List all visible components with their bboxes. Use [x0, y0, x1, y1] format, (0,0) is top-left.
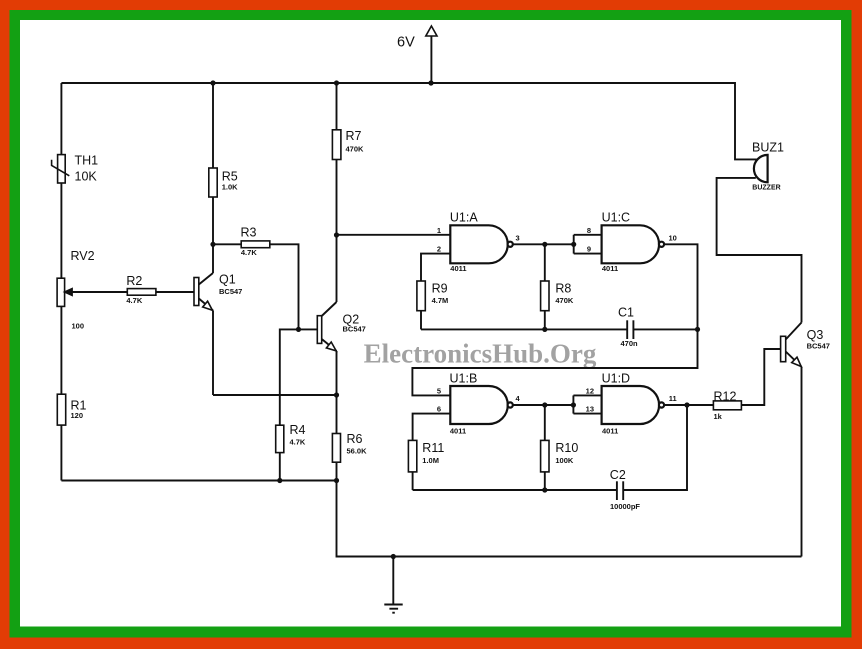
svg-text:R7: R7	[346, 129, 362, 143]
wire: U1D input split	[572, 395, 574, 413]
svg-text:R6: R6	[347, 432, 363, 446]
junction node C2 riser	[684, 402, 689, 407]
Q3 emitter arrow	[792, 357, 802, 366]
wire: U1C pin8	[574, 234, 602, 236]
wire: R2 to Q1 base	[156, 291, 194, 293]
svg-text:4.7K: 4.7K	[241, 248, 257, 257]
svg-text:4.7K: 4.7K	[290, 438, 306, 447]
wire: ground stub	[392, 557, 394, 605]
wire: R1 to bottom-left bus	[60, 425, 62, 480]
wire: Q1 collector diagonal	[199, 273, 213, 285]
wire: C1 right plate to corner	[633, 328, 697, 330]
svg-text:10000pF: 10000pF	[610, 502, 640, 511]
junction node U1B out R10	[542, 402, 547, 407]
transistor Q2	[317, 316, 321, 344]
svg-text:4011: 4011	[602, 264, 618, 273]
resistor R3	[241, 241, 270, 248]
resistor R10	[541, 440, 549, 472]
wire: RV2 wiper to R2	[65, 291, 128, 293]
svg-text:R3: R3	[241, 226, 257, 240]
svg-text:BC547: BC547	[343, 325, 366, 334]
wire: 6V stem	[430, 35, 432, 83]
svg-text:100K: 100K	[555, 456, 574, 465]
svg-text:C1: C1	[618, 306, 634, 320]
transistor Q3	[781, 336, 786, 361]
wire: RV2 to R1	[60, 306, 62, 394]
wire: node to R4 top	[280, 329, 299, 425]
svg-text:470K: 470K	[555, 296, 574, 305]
wire: TH1 to RV2	[60, 183, 62, 278]
resistor R8	[541, 281, 549, 311]
wire: U1C output to feedback	[412, 244, 697, 395]
svg-text:470n: 470n	[621, 339, 639, 348]
svg-text:470K: 470K	[346, 144, 365, 153]
thermistor TH1	[58, 155, 66, 183]
svg-text:TH1: TH1	[75, 154, 99, 168]
wire: R7 to pin1 node	[336, 160, 338, 236]
wire: R3 left lead	[213, 243, 241, 245]
wire: U1D pin12	[573, 394, 601, 396]
svg-text:4011: 4011	[602, 426, 618, 435]
svg-text:BUZZER: BUZZER	[752, 185, 780, 192]
resistor R5	[209, 168, 217, 197]
wire: R10 top lead	[544, 405, 546, 440]
wire: U1C input split	[573, 235, 575, 254]
wire: Q2 emitter diagonal	[322, 339, 337, 351]
svg-text:6V: 6V	[397, 35, 415, 51]
resistor R4	[276, 425, 284, 452]
junction node pin1	[334, 232, 339, 237]
svg-text:5: 5	[437, 386, 441, 395]
wire: U1B output	[513, 404, 574, 406]
junction node U1A out R8	[542, 242, 547, 247]
wire: R12 to Q3 base	[741, 349, 780, 405]
junction node Q1 emitter rail	[334, 392, 339, 397]
svg-text:ElectronicsHub.Org: ElectronicsHub.Org	[364, 338, 597, 368]
wire: R5 branch from top bus	[212, 83, 214, 168]
wire: U1D pin13	[573, 413, 601, 415]
wire: Q2 collector diagonal	[322, 302, 337, 316]
junction node R8 bottom	[542, 327, 547, 332]
wire: U1C pin9	[574, 253, 602, 255]
svg-text:12: 12	[586, 386, 594, 395]
wire: R8 bottom lead	[544, 311, 546, 330]
resistor R6	[332, 434, 340, 463]
resistor R11	[408, 440, 416, 472]
wire: Q3 emitter diagonal	[786, 352, 802, 367]
junction node top bus R7	[334, 80, 339, 85]
wire: Q1 emitter diagonal	[199, 299, 213, 311]
junction node R10 bottom	[542, 487, 547, 492]
svg-text:10: 10	[669, 233, 677, 242]
wire: Q1 emitter to R6 rail	[213, 394, 337, 396]
svg-text:1.0M: 1.0M	[422, 456, 439, 465]
svg-text:11: 11	[669, 394, 677, 403]
svg-text:4.7M: 4.7M	[432, 296, 449, 305]
wire: U1B pin6 to R11	[413, 414, 451, 441]
resistor R2	[127, 289, 156, 296]
svg-text:R4: R4	[290, 423, 306, 437]
svg-text:R11: R11	[422, 441, 444, 455]
resistor R12	[713, 401, 741, 410]
wire: Q3 collector diagonal	[786, 323, 802, 340]
svg-text:R2: R2	[126, 274, 142, 288]
wire: left rail top	[60, 83, 62, 155]
svg-text:1: 1	[437, 226, 441, 235]
wire: R7 branch from top bus	[336, 83, 338, 130]
wire: R6 to ground bus corner	[337, 462, 802, 556]
svg-text:10K: 10K	[75, 170, 98, 184]
junction node C1 right	[695, 327, 700, 332]
wire: R10 bottom lead	[544, 472, 546, 490]
svg-text:2: 2	[437, 245, 441, 254]
svg-text:1k: 1k	[714, 412, 723, 421]
svg-text:Q3: Q3	[807, 328, 824, 342]
wire: node R3 to Q1 collector	[212, 244, 214, 273]
capacitor C1 plates	[626, 320, 628, 339]
svg-text:120: 120	[71, 411, 84, 420]
wire: Q1 emitter down	[212, 311, 214, 396]
svg-text:56.0K: 56.0K	[347, 446, 368, 455]
wire: oscillator1 bottom rail	[421, 328, 627, 330]
wire: node to Q2 base	[299, 328, 318, 330]
wire: Q3 collector to buzzer	[717, 178, 802, 323]
junction node top bus 6V	[428, 80, 433, 85]
svg-text:100: 100	[72, 322, 85, 331]
junction node R3/R5	[210, 242, 215, 247]
svg-text:6: 6	[437, 405, 441, 414]
svg-text:4.7K: 4.7K	[126, 296, 142, 305]
junction node U1D in	[571, 402, 576, 407]
svg-text:R5: R5	[222, 170, 238, 184]
wire: C2 right plate to riser	[623, 405, 687, 490]
svg-text:C2: C2	[610, 468, 626, 482]
wire: R11 bottom lead	[412, 472, 414, 490]
ground symbol	[384, 604, 402, 606]
junction node bus end	[334, 478, 339, 483]
svg-text:1.0K: 1.0K	[222, 183, 238, 192]
junction node ground	[391, 554, 396, 559]
capacitor C2 plates	[616, 481, 618, 500]
wire: R8 top lead	[544, 244, 546, 281]
wire: top supply bus	[61, 83, 757, 159]
svg-text:R12: R12	[714, 389, 737, 403]
svg-text:RV2: RV2	[71, 249, 95, 263]
junction node Q2 base	[296, 327, 301, 332]
svg-text:U1:B: U1:B	[450, 371, 478, 385]
svg-text:4011: 4011	[450, 264, 466, 273]
wire: U1A output	[513, 243, 574, 245]
wire: oscillator2 bottom rail	[413, 489, 617, 491]
wire: R9 bottom lead	[420, 311, 422, 330]
potentiometer RV2	[57, 278, 65, 306]
transistor Q1	[194, 278, 199, 306]
svg-text:BUZ1: BUZ1	[752, 141, 784, 155]
svg-text:13: 13	[586, 405, 594, 414]
wire: pin1 node to U1A pin1	[337, 234, 451, 236]
junction node top bus R5	[210, 80, 215, 85]
Q1 emitter arrow	[203, 301, 213, 310]
svg-text:R10: R10	[555, 441, 578, 455]
svg-text:3: 3	[516, 233, 520, 242]
wire: pin1 node to Q2 collector	[336, 235, 338, 302]
junction node U1C in	[571, 242, 576, 247]
wire: R5 to node R3	[212, 197, 214, 244]
buzzer BUZ1	[754, 155, 768, 182]
resistor R9	[417, 281, 425, 311]
svg-text:U1:D: U1:D	[602, 371, 630, 385]
nand gate U1:B body	[450, 386, 508, 424]
svg-text:4011: 4011	[450, 426, 466, 435]
svg-text:Q1: Q1	[219, 273, 236, 287]
nand gate U1:C body	[602, 225, 659, 263]
svg-text:U1:A: U1:A	[450, 211, 478, 225]
resistor R7	[332, 130, 341, 160]
resistor R1	[57, 394, 65, 425]
nand gate U1:A body	[450, 225, 507, 263]
svg-text:U1:C: U1:C	[602, 211, 630, 225]
wire: Q3 emitter to ground bus	[801, 367, 803, 557]
6V power arrow	[426, 26, 437, 36]
svg-text:R9: R9	[432, 282, 448, 296]
svg-text:R8: R8	[555, 282, 571, 296]
svg-text:BC547: BC547	[219, 287, 242, 296]
wire: R4 bottom lead	[279, 453, 281, 481]
wire: U1D output to R12	[664, 404, 714, 406]
wire: R3 right to corner	[270, 244, 299, 329]
wire: Q2 emitter to R6	[336, 351, 338, 434]
wire: bottom-left bus	[61, 480, 336, 482]
junction node R4 bottom	[277, 478, 282, 483]
svg-text:8: 8	[587, 226, 591, 235]
svg-text:9: 9	[587, 245, 591, 254]
svg-text:BC547: BC547	[807, 342, 830, 351]
wire: U1A pin2 to R9	[421, 254, 450, 281]
Q2 emitter arrow	[326, 342, 336, 351]
nand gate U1:D body	[602, 386, 660, 424]
